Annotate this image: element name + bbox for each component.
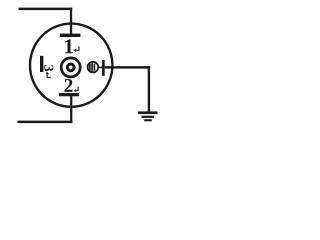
ground bar 3 (144, 119, 152, 121)
electrode plate output (102, 60, 105, 76)
ground bar 2 (142, 116, 154, 118)
wire right horizontal (105, 66, 150, 69)
seismic mass inner circle (67, 64, 74, 71)
wire top horizontal (19, 8, 73, 11)
electrode plate 3 (40, 56, 43, 72)
wire top vertical to plate 1 (70, 8, 72, 34)
electrode plate 2 (59, 93, 79, 96)
label 1 (65, 39, 73, 53)
pilcrow mark after label 1 (75, 46, 80, 50)
seismic mass outer circle (61, 58, 80, 77)
transducer body circle (30, 24, 112, 107)
wire bottom horizontal (18, 121, 73, 124)
wire right vertical to ground (148, 66, 150, 113)
label 2 (64, 79, 72, 92)
crystal element circle (88, 62, 99, 73)
wire bottom vertical from plate 2 (70, 96, 72, 123)
electrode plate 1 (60, 34, 81, 37)
pilcrow mark after label 2 (75, 87, 79, 91)
crystal element bars (89, 64, 91, 71)
wire crystal to output plate (98, 66, 102, 68)
label 3 (rotated) (44, 65, 53, 71)
ground bar 1 (138, 111, 158, 114)
pilcrow mark after label 3 (rotated) (47, 74, 51, 78)
